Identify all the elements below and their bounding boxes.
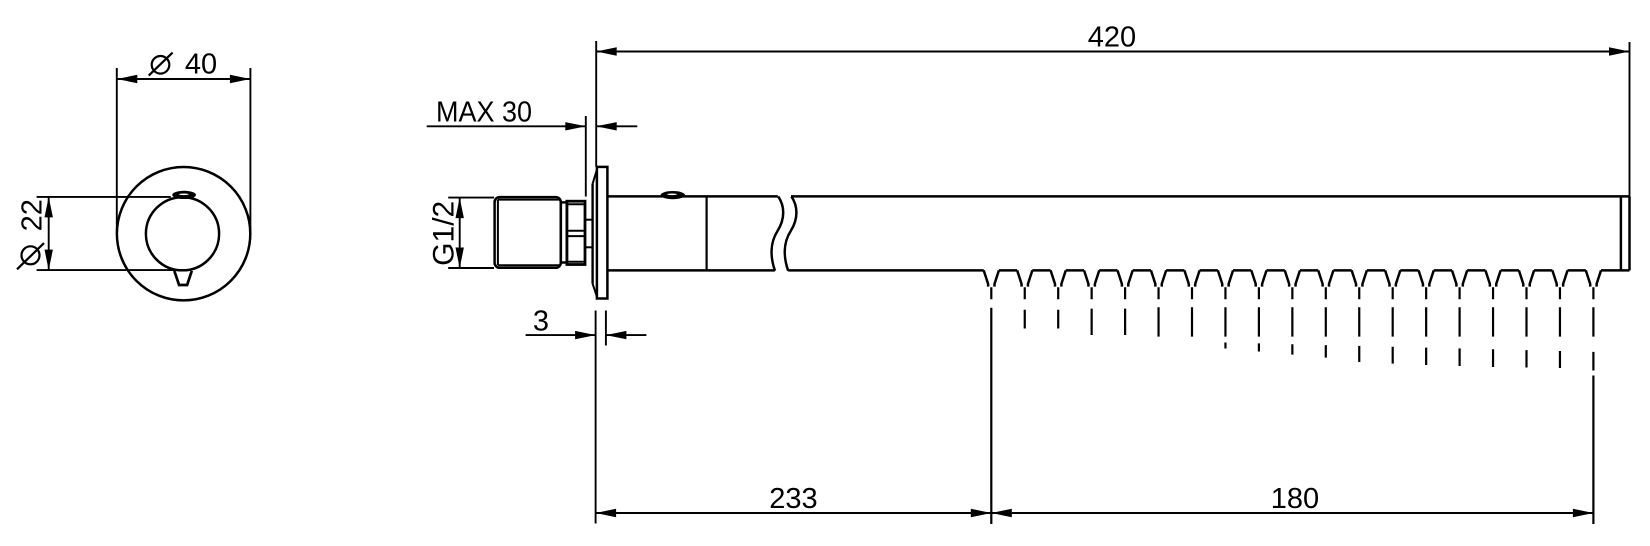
dimension 3: dimension line tails with arrows	[526, 334, 596, 336]
svg-text:180: 180	[1271, 483, 1319, 515]
shower arm tube: right end cap inner line	[1620, 196, 1623, 270]
shower arm tube: break squiggle right curve	[785, 196, 797, 270]
front view: outer flange circle	[117, 167, 250, 300]
svg-text:22: 22	[16, 199, 48, 231]
shower arm tube: top edge (right of break)	[791, 195, 1630, 198]
svg-text:MAX 30: MAX 30	[436, 97, 532, 129]
dimension D40: extension lines	[116, 68, 118, 234]
dimension 180: dimension line with arrows	[991, 512, 1593, 514]
dimension D40: diameter symbol	[152, 56, 170, 74]
shower arm tube: right end cap outer line	[1628, 196, 1631, 270]
dimension 420: right extension line	[1629, 42, 1631, 196]
dimension D22: dimension line with arrows	[48, 197, 50, 270]
dimension MAX 30: nut-face extension line	[585, 116, 587, 197]
dimension 420: wall-face extension line	[595, 41, 597, 167]
shower arm tube: section line on tube	[705, 196, 707, 270]
dimension D22: extension lines	[37, 196, 171, 198]
dimension 3: extension lines below flange	[595, 311, 597, 524]
front view: aerator dome detail at top of tube	[172, 191, 196, 199]
locking nut facet lines	[567, 230, 585, 232]
dimension 233: dimension line with arrows	[596, 512, 992, 514]
connector step ring	[561, 202, 567, 262]
shower arm tube: set-screw dome on top	[661, 191, 685, 199]
dimension D40: dimension line with arrows	[117, 78, 251, 80]
G1/2 threaded connector body	[495, 197, 561, 268]
svg-text:40: 40	[185, 49, 217, 81]
shower arm tube: break squiggle left curve	[772, 196, 784, 270]
dimension D22: diameter symbol (rotated)	[22, 246, 40, 264]
shower arm tube: top edge (left of break)	[607, 195, 777, 198]
svg-text:G1/2: G1/2	[428, 201, 461, 266]
shower arm tube: bottom edge flange to first nozzle	[607, 269, 775, 272]
neck between nut and flange	[585, 219, 593, 221]
svg-text:233: 233	[769, 483, 817, 515]
svg-text:3: 3	[533, 305, 549, 337]
dimension G1/2: extension lines	[448, 197, 494, 199]
G1/2 thread root lines	[497, 200, 499, 266]
locking nut	[567, 201, 585, 264]
nozzle row: bottom edge segments and 19 nozzle notches	[788, 269, 984, 272]
bottom edge from last nozzle to end cap	[1601, 269, 1630, 272]
water jets: dashed spray lines under nozzles	[991, 287, 1593, 524]
dimension 420: dimension line with arrows	[596, 51, 1629, 53]
dimension MAX 30: dimension line tails with arrows	[427, 125, 586, 127]
svg-text:420: 420	[1088, 22, 1136, 54]
flange cone back edge	[591, 184, 593, 284]
dimension G1/2: dimension line with arrows	[459, 198, 461, 268]
wall flange plate	[597, 167, 608, 299]
front view: spout nub at bottom of tube	[175, 272, 191, 285]
front view: shower arm tube circle	[146, 197, 219, 270]
